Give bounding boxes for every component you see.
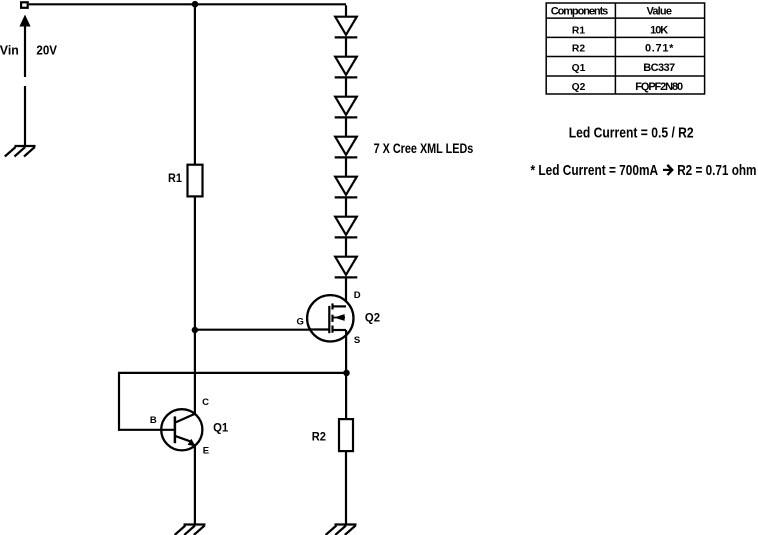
led D1	[335, 5, 358, 37]
svg-text:10K: 10K	[650, 24, 668, 36]
svg-text:Value: Value	[646, 5, 672, 17]
svg-text:R1: R1	[168, 171, 182, 185]
led D3	[335, 77, 358, 117]
svg-text:G: G	[297, 316, 304, 327]
wire top horizontal rail	[29, 3, 346, 5]
svg-text:Q2: Q2	[365, 310, 380, 324]
svg-text:B: B	[150, 415, 157, 426]
components table	[546, 3, 704, 94]
wire R2 to ground	[345, 451, 347, 524]
transistor Q1 (BJT BC337)	[118, 409, 202, 450]
resistor R2	[339, 419, 353, 451]
wire feedback horizontal to source node	[118, 372, 347, 374]
led D6	[335, 197, 358, 237]
svg-text:C: C	[202, 397, 209, 408]
ground (input)	[5, 146, 36, 157]
wire R1 bottom to Q1 collector	[194, 196, 196, 414]
ground (under R2)	[326, 525, 357, 535]
channel segments	[331, 303, 333, 309]
wire left branch down to R1	[194, 4, 196, 164]
svg-text:7 X Cree XML LEDs: 7 X Cree XML LEDs	[374, 140, 474, 156]
terminal square (Vin input)	[21, 2, 28, 8]
wire node to R2	[345, 373, 347, 419]
svg-text:BC337: BC337	[643, 62, 675, 74]
svg-text:0.71*: 0.71*	[645, 43, 674, 55]
led D4	[335, 117, 358, 157]
led D2	[335, 37, 358, 77]
svg-text:FQPF2N80: FQPF2N80	[635, 81, 683, 93]
svg-text:E: E	[203, 446, 209, 457]
drain lead	[333, 305, 347, 307]
wire Q2 source down to node	[345, 330, 347, 373]
svg-text:Led Current = 0.5 / R2: Led Current = 0.5 / R2	[569, 125, 694, 142]
svg-text:S: S	[354, 335, 360, 346]
gate lead inside	[310, 328, 329, 330]
wire Q1 emitter down	[194, 444, 196, 524]
svg-text:Q2: Q2	[572, 82, 586, 93]
table header text	[551, 5, 683, 93]
node junction gate branch	[192, 327, 199, 334]
wire D7 to Q2 drain	[345, 277, 347, 307]
body arrow	[334, 317, 346, 319]
mosfet Q2 (FQPF2N80)	[307, 295, 353, 341]
gate bar	[328, 306, 330, 333]
svg-text:20V: 20V	[36, 42, 57, 57]
source lead	[333, 329, 347, 331]
node junction top (R1 branch)	[192, 1, 199, 8]
svg-text:R2 = 0.71 ohm: R2 = 0.71 ohm	[677, 162, 756, 179]
svg-text:* Led Current = 700mA: * Led Current = 700mA	[531, 162, 659, 179]
wire gate (junction to Q2 gate)	[195, 329, 329, 331]
ground (under Q1)	[175, 525, 206, 535]
formula 2 arrow glyph	[663, 165, 672, 175]
svg-text:Vin: Vin	[0, 42, 19, 57]
wire feedback vertical (Q1 base up)	[118, 373, 120, 431]
led D7	[335, 237, 358, 277]
svg-text:Q1: Q1	[213, 420, 228, 434]
svg-text:R2: R2	[572, 44, 585, 55]
svg-text:R1: R1	[572, 25, 585, 36]
Vin arrow annotation	[19, 15, 30, 78]
resistor R1	[188, 165, 203, 197]
svg-text:D: D	[354, 290, 361, 301]
svg-text:Components: Components	[551, 5, 609, 17]
svg-text:R2: R2	[312, 430, 326, 444]
wire from arrow to input ground	[24, 86, 26, 146]
node junction source/R2/feedback	[343, 370, 350, 377]
led D5	[335, 157, 358, 197]
svg-text:Q1: Q1	[572, 63, 586, 74]
